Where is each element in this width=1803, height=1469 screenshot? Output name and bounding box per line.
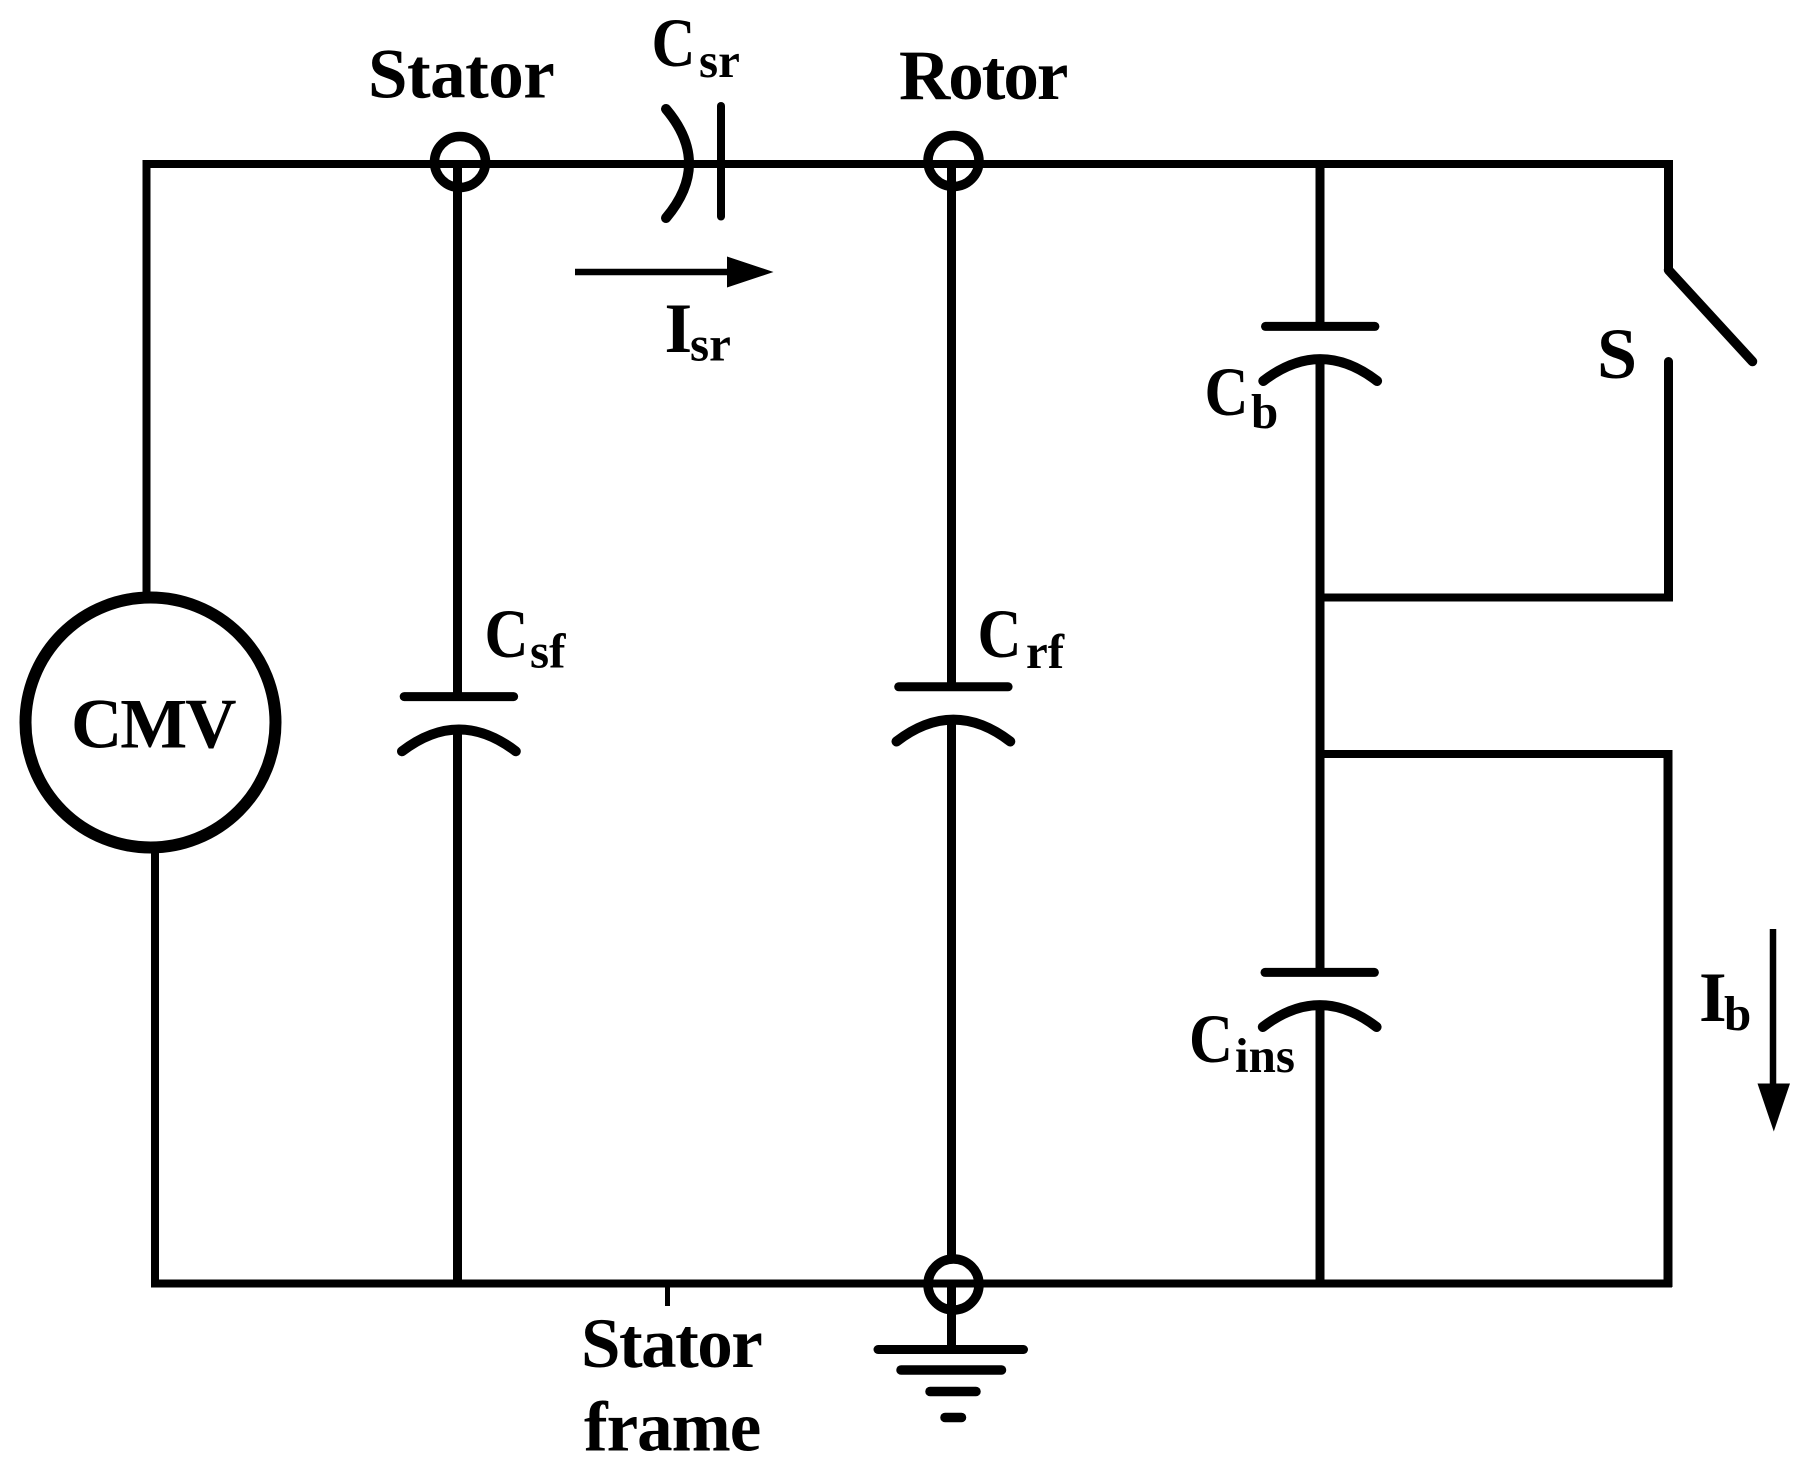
switch S (open blade) xyxy=(1664,160,1753,601)
svg-text:CMV: CMV xyxy=(71,686,236,764)
wire: right edge vertical (to bottom rail) xyxy=(1664,750,1673,1287)
svg-text:C: C xyxy=(1205,354,1249,430)
svg-text:C: C xyxy=(652,5,696,81)
svg-text:ins: ins xyxy=(1235,1028,1295,1083)
svg-text:C: C xyxy=(1189,1001,1233,1077)
capacitor Cins (insulation) xyxy=(1263,972,1377,1027)
label Cins xyxy=(1189,1001,1295,1083)
svg-text:Stator: Stator xyxy=(581,1305,761,1383)
label Csr xyxy=(652,5,740,88)
label Crf xyxy=(978,596,1065,679)
wire: bottom rail (stator frame) xyxy=(151,1280,1672,1288)
svg-text:b: b xyxy=(1251,384,1278,439)
wire: switch bottom terminal to bearing column xyxy=(1316,594,1673,602)
wire: rotor column upper (node to Crf) xyxy=(947,164,956,687)
wire: left branch lower vertical (CMV to bottom rail) xyxy=(151,850,159,1287)
svg-text:Stator: Stator xyxy=(368,36,554,114)
node Stator (terminal circle on top rail) xyxy=(435,137,486,188)
svg-text:sr: sr xyxy=(699,33,740,88)
svg-text:C: C xyxy=(978,596,1022,672)
svg-text:S: S xyxy=(1597,314,1637,394)
label Stator frame xyxy=(581,1305,761,1467)
ground xyxy=(878,1284,1024,1418)
node Stator-frame tick mark on bottom rail xyxy=(665,1285,670,1306)
arrow Isr (stator-rotor current direction) xyxy=(575,257,774,288)
wire: stator column upper (node to Csf) xyxy=(453,164,462,697)
node ground junction (terminal circle on bottom rail) xyxy=(928,1259,979,1310)
capacitor Csr (stator-to-rotor, series in top rail) xyxy=(666,106,721,218)
wire: top rail from CMV to switch xyxy=(143,160,1673,168)
capacitor Csf (stator-to-frame) xyxy=(402,697,516,752)
label Cb xyxy=(1205,354,1279,439)
label Isr xyxy=(665,290,731,372)
source CMV (common-mode voltage source) xyxy=(26,598,276,848)
wire: bearing column middle (Cb to Cins, with junctions to switch loop) xyxy=(1316,360,1325,972)
capacitor Crf (rotor-to-frame) xyxy=(897,687,1011,742)
svg-text:I: I xyxy=(665,290,693,368)
arrow Ib (bearing current direction) xyxy=(1758,929,1791,1132)
wire: stator column lower (Csf to bottom rail) xyxy=(453,731,462,1287)
capacitor Cb (bearing) xyxy=(1263,326,1377,381)
svg-text:Rotor: Rotor xyxy=(899,37,1067,115)
svg-text:sf: sf xyxy=(530,624,566,679)
wire: rotor column lower (Crf to ground node) xyxy=(947,721,956,1256)
wire: bearing column upper (top rail to Cb) xyxy=(1316,164,1325,326)
node Rotor (terminal circle on top rail) xyxy=(928,136,979,187)
wire: bearing column lower (Cins to bottom rail) xyxy=(1316,1006,1325,1287)
label Ib xyxy=(1699,959,1751,1041)
svg-text:sr: sr xyxy=(690,317,731,372)
svg-text:b: b xyxy=(1724,986,1751,1041)
svg-text:I: I xyxy=(1699,959,1727,1037)
label Csf xyxy=(485,596,567,679)
svg-text:frame: frame xyxy=(584,1389,760,1467)
svg-text:C: C xyxy=(485,596,529,672)
wire: bearing column to right edge xyxy=(1316,750,1673,758)
wire: left branch upper vertical (CMV to top rail) xyxy=(143,160,151,594)
svg-text:rf: rf xyxy=(1026,624,1065,679)
